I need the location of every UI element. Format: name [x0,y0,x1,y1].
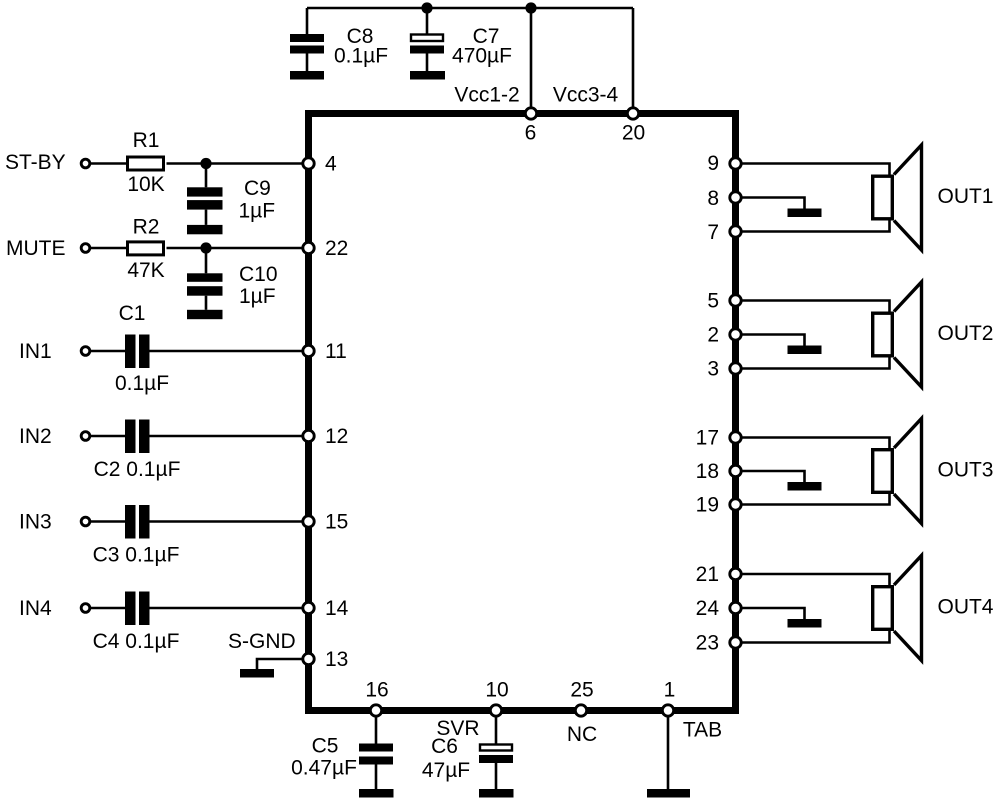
wire pin 16 to C5 [375,718,378,744]
wire C4 to pin 14 [150,607,303,610]
wire junction to C9 [205,164,208,188]
svg-text:17: 17 [696,427,719,450]
terminal IN1 [81,347,90,356]
ground C9 [187,225,223,234]
wire IN1 to C1 [91,350,125,353]
ground TAB [647,789,690,798]
ground OUT4 [788,619,822,628]
node junction R2/C10 [200,242,211,253]
svg-text:NC: NC [567,723,597,746]
svg-text:12: 12 [325,425,348,448]
node junction dot C7/rail [421,2,432,13]
wire IN2 to C2 [91,435,125,438]
svg-text:R1: R1 [133,129,160,152]
svg-text:10K: 10K [127,173,164,196]
speaker OUT3 [873,419,922,524]
pin 9 [730,158,741,169]
terminal IN4 [81,604,90,613]
svg-text:2: 2 [707,324,719,347]
wire C8 lead from rail [306,8,309,34]
svg-text:7: 7 [707,221,719,244]
wire speaker OUT4 loop [742,574,890,643]
capacitor C8 [290,34,324,71]
pin 7 [730,226,741,237]
wire C3 to pin 15 [150,520,303,523]
pin 16 [370,705,381,716]
pin 23 [730,637,741,648]
wire MUTE to R2 [91,247,128,250]
svg-text:6: 6 [525,122,537,145]
pin 10 [490,705,501,716]
capacitor C4 [125,592,150,626]
wire pin 13 to ground [257,659,302,669]
svg-text:3: 3 [707,358,719,381]
terminal ST-BY [81,159,90,168]
svg-text:OUT3: OUT3 [937,459,993,482]
pin 5 [730,295,741,306]
svg-text:21: 21 [696,563,719,586]
svg-text:11: 11 [325,340,347,363]
wire pin 20 Vcc3-4 lead [632,8,635,107]
pin 24 [730,602,741,613]
svg-text:8: 8 [707,187,719,210]
svg-text:5: 5 [707,290,719,313]
svg-text:OUT4: OUT4 [937,596,993,619]
ground OUT1 [788,209,822,218]
pin 12 [303,430,314,441]
wire junction to C10 [205,248,208,273]
svg-text:47K: 47K [127,259,164,282]
wire pin 10 to C6 [495,718,498,744]
svg-text:C4 0.1µF: C4 0.1µF [93,630,180,653]
svg-text:0.47µF: 0.47µF [291,757,357,780]
IC body U1 [309,114,736,711]
svg-text:C9: C9 [244,177,271,200]
svg-text:13: 13 [325,648,348,671]
ground OUT2 [788,346,822,355]
wire IN4 to C4 [91,607,125,610]
svg-text:C5: C5 [312,735,339,758]
svg-text:22: 22 [325,237,348,260]
wire C2 to pin 12 [150,435,303,438]
svg-text:18: 18 [696,460,719,483]
svg-text:0.1µF: 0.1µF [115,372,169,395]
wire pin 2 to ground [742,335,805,346]
wire pin 8 to ground [742,198,805,209]
speaker OUT2 [873,282,922,387]
wire speaker OUT1 loop [742,164,890,232]
wire pin 6 Vcc1-2 lead [530,8,533,107]
pin 20 [627,108,638,119]
svg-text:Vcc1-2: Vcc1-2 [454,84,519,107]
svg-text:Vcc3-4: Vcc3-4 [553,84,619,107]
svg-text:24: 24 [696,597,720,620]
svg-text:IN3: IN3 [19,511,52,534]
pin 22 [303,242,314,253]
wire C7 lead from rail [426,8,429,34]
speaker OUT1 [873,145,922,250]
capacitor C2 [125,420,150,454]
svg-text:C10: C10 [239,263,278,286]
svg-text:IN2: IN2 [19,425,52,448]
svg-text:15: 15 [325,511,348,534]
svg-text:14: 14 [325,597,349,620]
svg-text:16: 16 [365,679,388,702]
capacitor C10 [187,273,223,310]
wire pin 1 TAB to ground [667,718,670,790]
capacitor C7 [410,35,444,72]
svg-text:1: 1 [664,679,676,702]
svg-text:1µF: 1µF [239,200,276,223]
resistor R1 [128,157,164,170]
speaker OUT4 [873,556,922,661]
pin 4 [303,158,314,169]
wire C1 to pin 11 [150,350,303,353]
wire speaker OUT2 loop [742,301,890,369]
svg-text:IN4: IN4 [19,597,52,620]
pin 2 [730,329,741,340]
wire Vcc top rail [307,7,633,10]
pin 14 [303,602,314,613]
ground S-GND [240,669,274,678]
pin 21 [730,568,741,579]
svg-text:ST-BY: ST-BY [5,151,66,174]
wire R2 to pin 22 [167,247,303,250]
node junction R1/C9 [200,158,211,169]
svg-text:19: 19 [696,494,719,517]
svg-text:25: 25 [570,679,593,702]
wire IN3 to C3 [91,520,125,523]
svg-text:23: 23 [696,632,719,655]
pin 19 [730,499,741,510]
svg-text:C1: C1 [119,302,146,325]
svg-text:1µF: 1µF [239,285,276,308]
wire pin 24 to ground [742,608,805,619]
ground OUT3 [788,482,822,491]
pin 1 [662,705,673,716]
wire speaker OUT3 loop [742,438,890,505]
ground C8 [290,71,324,80]
svg-text:20: 20 [622,122,645,145]
pin 3 [730,363,741,374]
svg-text:C6: C6 [431,735,458,758]
pin 25 [575,705,586,716]
resistor R2 [128,242,164,255]
capacitor C6 [479,745,513,790]
terminal MUTE [81,244,90,253]
ground C7 [410,71,445,80]
svg-text:10: 10 [485,679,508,702]
svg-text:MUTE: MUTE [6,237,66,260]
node junction dot pin6/rail [525,2,536,13]
wire ST-BY to R1 [91,162,128,165]
svg-text:0.1µF: 0.1µF [334,45,388,68]
pin 17 [730,432,741,443]
pin 13 [303,653,314,664]
svg-text:9: 9 [707,152,719,175]
capacitor C3 [125,505,150,539]
pin 8 [730,192,741,203]
wire R1 to pin 4 [167,162,303,165]
pin 6 [525,108,536,119]
capacitor C5 [359,744,393,790]
svg-text:TAB: TAB [683,719,722,742]
svg-text:C2 0.1µF: C2 0.1µF [94,458,181,481]
svg-text:470µF: 470µF [452,45,512,68]
ground C6 [479,789,514,798]
svg-text:S-GND: S-GND [228,630,296,653]
svg-text:4: 4 [325,153,337,176]
svg-text:OUT1: OUT1 [937,185,993,208]
pin 15 [303,516,314,527]
terminal IN2 [81,432,90,441]
svg-text:R2: R2 [133,216,160,239]
terminal IN3 [81,517,90,526]
svg-text:C3 0.1µF: C3 0.1µF [93,544,180,567]
ground C5 [359,789,394,798]
svg-text:IN1: IN1 [19,340,52,363]
pin 18 [730,465,741,476]
capacitor C1 [125,335,150,369]
pin 11 [303,345,314,356]
svg-text:47µF: 47µF [422,759,470,782]
capacitor C9 [187,187,223,225]
wire pin 18 to ground [742,471,805,482]
ground C10 [187,310,223,319]
svg-text:OUT2: OUT2 [937,322,993,345]
